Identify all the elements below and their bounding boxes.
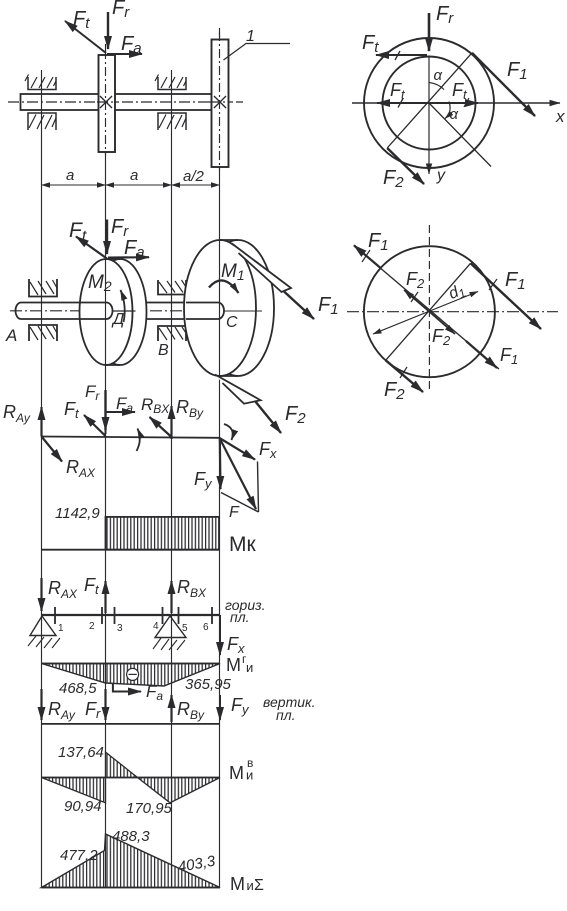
construction line C (x=171.5) xyxy=(171,70,173,888)
Mv baseline xyxy=(42,777,221,779)
Mk baseline xyxy=(42,549,220,551)
svg-text:F1: F1 xyxy=(505,269,526,293)
svg-text:1: 1 xyxy=(246,28,255,45)
horizontal plane beam xyxy=(42,614,221,616)
svg-text:α: α xyxy=(450,106,459,123)
dimension a (A-B) xyxy=(42,167,106,185)
svg-text:F2: F2 xyxy=(406,269,425,291)
svg-text:и: и xyxy=(246,660,253,675)
svg-text:Ft: Ft xyxy=(64,399,80,421)
top view: bearing A lower block xyxy=(28,113,56,130)
moment M1 arc arrow xyxy=(209,261,245,293)
force Fa (top view) xyxy=(107,53,142,55)
force Ft (beam) xyxy=(84,575,106,613)
svg-text:403,3: 403,3 xyxy=(177,853,218,876)
force Fy (FBD) xyxy=(194,438,221,491)
svg-text:Fa: Fa xyxy=(124,237,145,261)
svg-text:488,3: 488,3 xyxy=(112,828,150,845)
Mv diagram right triangle below xyxy=(138,778,221,803)
moment M2 arc arrow xyxy=(88,272,125,322)
support A triangle xyxy=(28,616,60,648)
svg-text:a: a xyxy=(130,167,138,184)
vertical radius segment xyxy=(428,56,430,103)
svg-text:Fa: Fa xyxy=(121,33,142,57)
pictorial: bearing B lower block xyxy=(158,326,186,341)
force Ft (FBD) xyxy=(64,399,106,436)
svg-text:F2: F2 xyxy=(285,403,306,427)
reaction RAy (FBD) xyxy=(3,402,42,437)
main diagonal through center NW-SE xyxy=(355,247,499,370)
svg-text:Fr: Fr xyxy=(436,3,454,27)
angle alpha lower with arc arrow xyxy=(445,102,459,124)
minus sign circled xyxy=(127,668,139,680)
svg-text:Fa: Fa xyxy=(116,394,133,415)
svg-text:RAX: RAX xyxy=(66,457,96,480)
svg-text:Σ: Σ xyxy=(254,877,264,894)
force Fa (pictorial) xyxy=(108,256,149,259)
curved arrow at C point xyxy=(224,424,233,440)
pictorial: shaft centerline xyxy=(10,310,262,312)
belt force F1 at top tangent xyxy=(471,263,542,329)
gear centerline overlays xyxy=(105,50,107,158)
svg-text:Ft: Ft xyxy=(452,80,468,102)
svg-text:Fr: Fr xyxy=(85,699,101,721)
reaction RBX (beam) xyxy=(172,577,208,613)
svg-text:RBy: RBy xyxy=(176,397,204,420)
gear force circle: inner circle xyxy=(383,57,476,150)
diameter NE-SW (tangent points) xyxy=(386,263,471,360)
force Fx (FBD) xyxy=(220,438,278,461)
top view: center cross on disk xyxy=(214,96,226,108)
force F1 (circle fig) xyxy=(472,53,535,116)
reaction RBy (FBD) xyxy=(172,397,205,439)
FBD axis line xyxy=(42,437,220,438)
svg-text:В: В xyxy=(158,342,169,359)
force F2 arrow toward SE at center xyxy=(429,312,455,348)
X axis xyxy=(352,103,565,126)
moment curved arrow (FBD mid) xyxy=(137,429,140,452)
top view: center cross on gear xyxy=(100,96,112,108)
force F1 arrow SE tip xyxy=(466,341,518,368)
svg-text:1: 1 xyxy=(58,623,64,634)
pictorial: centerline through pulley xyxy=(224,310,262,312)
svg-text:137,64: 137,64 xyxy=(58,744,104,761)
top view: shaft centerline xyxy=(8,101,243,103)
svg-text:F1: F1 xyxy=(368,230,389,254)
pictorial: bearing A upper block xyxy=(29,279,57,297)
Mg baseline xyxy=(42,663,221,665)
reaction RAX (FBD) xyxy=(42,437,97,481)
pictorial: shaft inside pulley with end cap xyxy=(186,303,224,320)
svg-text:170,95: 170,95 xyxy=(126,800,173,817)
svg-text:Мк: Мк xyxy=(229,533,256,556)
svg-text:A: A xyxy=(5,326,17,345)
pictorial: gear front ellipse xyxy=(80,259,133,365)
svg-text:F: F xyxy=(229,504,240,521)
top view: bearing A upper block xyxy=(25,75,56,90)
pictorial: pulley front ellipse xyxy=(184,240,256,376)
force F2 (pictorial belt) xyxy=(256,402,307,433)
angle alpha upper xyxy=(429,67,444,90)
svg-text:пл.: пл. xyxy=(276,707,296,723)
svg-text:y: y xyxy=(436,167,446,184)
top view: bearing B upper block xyxy=(155,75,186,90)
diameter line NE-SW (circle fig) xyxy=(387,53,472,148)
svg-text:F1: F1 xyxy=(507,59,528,83)
pictorial: shaft into gear with end cap xyxy=(79,303,113,320)
line D overlay through pulley xyxy=(219,240,221,376)
force Fa (FBD, L-shape) xyxy=(106,394,136,434)
svg-text:Ft: Ft xyxy=(73,8,90,32)
pictorial: bearing B upper block xyxy=(158,280,186,295)
svg-text:и: и xyxy=(247,878,254,893)
construction line A (x=41.5) xyxy=(41,70,43,888)
svg-text:2: 2 xyxy=(89,621,95,632)
reaction RBX (FBD) xyxy=(141,395,172,437)
label Mg xyxy=(226,652,253,675)
reaction RAX (beam) xyxy=(42,578,79,611)
pictorial: bearing A lower block xyxy=(29,325,57,341)
svg-text:и: и xyxy=(246,768,253,783)
pictorial: shaft left segment xyxy=(16,303,81,320)
force F resultant (FBD) xyxy=(220,438,257,521)
svg-text:Ft: Ft xyxy=(69,219,87,245)
line B overlay through gear xyxy=(105,259,107,365)
force Fr (circle fig) xyxy=(428,13,431,51)
svg-text:5: 5 xyxy=(182,623,188,634)
svg-text:Fr: Fr xyxy=(112,0,130,21)
svg-text:F2: F2 xyxy=(432,326,451,348)
svg-text:пл.: пл. xyxy=(230,609,250,625)
svg-text:RBX: RBX xyxy=(141,395,170,416)
horizontal dash-dot centerline xyxy=(347,311,558,313)
svg-text:RBX: RBX xyxy=(177,577,207,600)
pictorial: gear rim ellipse xyxy=(94,259,147,365)
construction line D (x=219.5) xyxy=(219,28,221,172)
force Fr (top view) xyxy=(107,12,109,49)
svg-text:C: C xyxy=(226,314,238,331)
diagonal SE from center (circle fig) xyxy=(429,103,491,167)
force Ft right on x axis xyxy=(429,80,478,107)
pictorial: belt lower ribbon xyxy=(215,375,261,404)
svg-text:Fr: Fr xyxy=(85,382,100,403)
svg-text:365,95: 365,95 xyxy=(185,676,232,693)
svg-text:1142,9: 1142,9 xyxy=(55,505,100,522)
section ticks 1-6 xyxy=(55,607,212,624)
Mk torque diagram rectangle xyxy=(106,517,220,550)
svg-text:Fx: Fx xyxy=(259,439,277,461)
force F1 (pictorial belt) xyxy=(284,292,339,320)
svg-text:468,5: 468,5 xyxy=(59,680,97,697)
svg-text:x: x xyxy=(555,107,565,126)
belt force F2 at bottom tangent xyxy=(384,360,423,403)
parallelogram side Fy-F xyxy=(221,493,259,513)
Mv diagram peak above xyxy=(106,752,138,777)
svg-text:α: α xyxy=(434,67,443,84)
svg-text:F1: F1 xyxy=(500,345,518,367)
support B triangle xyxy=(153,616,186,650)
MSum diagram xyxy=(42,834,221,888)
parallelogram side Fx-F xyxy=(258,462,259,513)
force Ft left on x axis xyxy=(377,80,429,108)
svg-text:Fy: Fy xyxy=(231,695,250,717)
top view: gear 2 body xyxy=(99,55,116,152)
force Fx (beam right) xyxy=(220,615,245,656)
force Fa below Mg xyxy=(113,682,163,703)
svg-text:d1: d1 xyxy=(446,281,468,305)
top view: shaft xyxy=(21,94,212,110)
svg-text:Ft: Ft xyxy=(390,80,406,102)
svg-text:F1: F1 xyxy=(318,294,339,318)
pictorial: shaft middle segment xyxy=(147,303,187,320)
svg-text:Ft: Ft xyxy=(84,575,100,597)
disk centerline overlays xyxy=(219,32,221,170)
construction line B (x=105.5) xyxy=(105,44,107,160)
pictorial: centerline inside gear xyxy=(113,310,136,312)
svg-text:477,2: 477,2 xyxy=(60,847,98,864)
section numbers xyxy=(58,621,209,634)
label 1 with leader xyxy=(224,28,291,60)
top view: disk 1 body xyxy=(212,40,229,168)
svg-text:6: 6 xyxy=(203,622,209,633)
gear force circle: outer circle xyxy=(364,38,494,168)
force Ft top tangent (circle fig) xyxy=(362,32,427,60)
svg-text:RAX: RAX xyxy=(48,578,78,601)
force Ft (pictorial) xyxy=(76,237,107,259)
svg-text:3: 3 xyxy=(117,623,123,634)
force Ft (top view) xyxy=(65,21,106,53)
pulley force circle xyxy=(364,246,495,377)
force F2 (circle fig) xyxy=(383,148,424,191)
dimension a (B-C) xyxy=(106,167,172,185)
svg-text:M: M xyxy=(229,763,244,783)
svg-text:90,94: 90,94 xyxy=(64,798,102,815)
svg-text:a/2: a/2 xyxy=(183,168,205,185)
reaction RAy (vert) xyxy=(42,689,76,722)
reaction RBy (vert) xyxy=(172,695,206,722)
svg-text:M: M xyxy=(230,874,245,894)
force Fr (vert) xyxy=(85,689,106,721)
svg-text:F2: F2 xyxy=(383,167,404,191)
svg-text:Д: Д xyxy=(111,311,124,328)
force F1 arrow NW tip xyxy=(354,230,389,268)
MSum baseline xyxy=(42,887,221,889)
pictorial: pulley top/bottom edges xyxy=(220,240,238,376)
svg-text:M: M xyxy=(226,655,241,675)
svg-text:Ft: Ft xyxy=(362,32,379,56)
diameter d1 double arrow xyxy=(373,281,478,334)
svg-text:4: 4 xyxy=(153,621,159,632)
svg-text:F2: F2 xyxy=(384,379,405,403)
Mg bending diagram trapezoid xyxy=(42,664,221,687)
label Mv xyxy=(229,756,253,783)
pictorial: pulley rim ellipse xyxy=(202,240,274,376)
pictorial: gear top/bottom edges xyxy=(106,259,120,365)
force Fr (FBD) xyxy=(85,382,106,430)
Mv diagram left triangle below xyxy=(42,778,106,803)
label MSum xyxy=(230,874,264,894)
vertical plane baseline xyxy=(42,723,221,725)
dimension a/2 (C-D) xyxy=(172,168,220,185)
pictorial: belt upper ribbon xyxy=(232,244,291,293)
force Fr (pictorial) xyxy=(106,220,108,255)
top view: bearing B lower block xyxy=(158,113,186,130)
svg-text:a: a xyxy=(66,167,74,184)
svg-text:Fy: Fy xyxy=(194,469,213,491)
y axis xyxy=(429,103,446,184)
force Fy (vert) xyxy=(220,695,250,720)
force F2 arrow toward NW at center xyxy=(404,269,429,312)
svg-text:RAy: RAy xyxy=(48,699,76,722)
svg-text:RAy: RAy xyxy=(3,402,31,425)
vertical dashed centerline xyxy=(428,225,430,391)
svg-text:RBy: RBy xyxy=(177,699,205,722)
